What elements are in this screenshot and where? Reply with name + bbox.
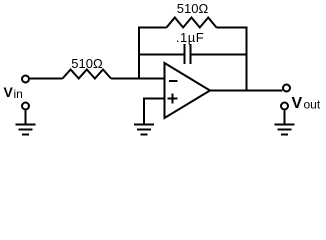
wire: Vin terminal to R1 bbox=[30, 78, 63, 80]
wire: capacitor branch left bbox=[138, 54, 184, 56]
wire: feedback top left stub bbox=[138, 27, 167, 29]
wire: feedback top right stub bbox=[217, 27, 248, 29]
svg-text:V: V bbox=[4, 84, 14, 100]
op-amp U1 bbox=[165, 63, 211, 118]
svg-text:out: out bbox=[304, 98, 321, 112]
wire: non-inverting input to ground bbox=[144, 99, 165, 125]
wire: R1 to op-amp inverting input (node A) bbox=[111, 78, 165, 80]
wire: feedback right vertical down to output node B bbox=[246, 27, 248, 91]
ground GND3 (below Vout) bbox=[275, 111, 295, 135]
op-amp U1 non-inverting input marker + bbox=[168, 94, 178, 104]
resistor R1 bbox=[63, 70, 112, 79]
terminal J4 (Vout ground reference circle) bbox=[281, 103, 288, 110]
svg-text:510Ω: 510Ω bbox=[71, 56, 103, 71]
op-amp U1 inverting input marker − bbox=[169, 80, 178, 82]
wire: feedback left vertical (node A up to feedback network) bbox=[138, 28, 140, 80]
ground GND1 (below Vin) bbox=[16, 111, 36, 135]
terminal J1 (Vin input terminal circle) bbox=[22, 76, 29, 83]
svg-text:510Ω: 510Ω bbox=[177, 1, 209, 16]
svg-text:V: V bbox=[292, 95, 303, 112]
capacitor C1 bbox=[185, 44, 191, 64]
wire: capacitor branch right bbox=[192, 54, 247, 56]
terminal J2 (Vin ground reference circle) bbox=[22, 103, 29, 110]
svg-text:.1µF: .1µF bbox=[176, 30, 204, 45]
ground GND2 (op-amp non-inverting input) bbox=[134, 125, 154, 135]
resistor R2 bbox=[167, 18, 217, 28]
wire: op-amp output to Vout terminal (node B) bbox=[210, 90, 283, 92]
terminal J3 (Vout output terminal circle) bbox=[283, 85, 290, 92]
svg-text:in: in bbox=[14, 87, 23, 101]
